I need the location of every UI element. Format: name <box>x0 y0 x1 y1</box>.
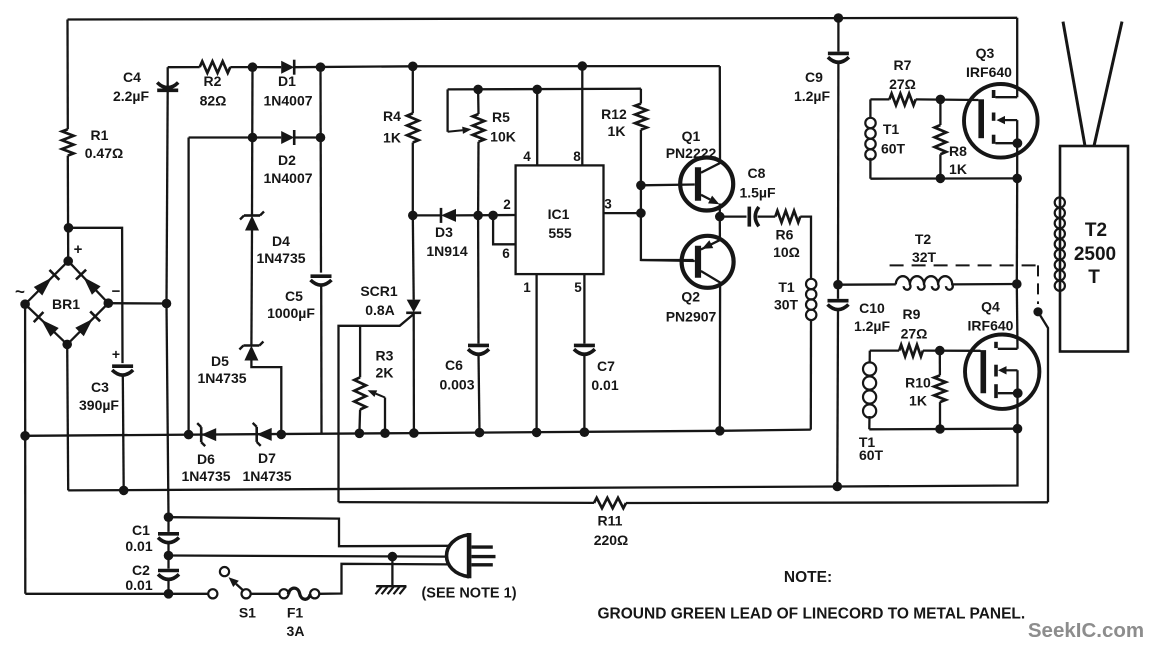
svg-text:1.5µF: 1.5µF <box>739 185 776 201</box>
wire C2 bottom lead <box>167 579 169 594</box>
wire dashed coupling vertical <box>1037 265 1039 304</box>
wire R10 bottom lead <box>939 402 941 429</box>
node R4/D3 junction <box>408 211 418 221</box>
node C1/C2 junction <box>164 551 174 561</box>
label F1 value <box>287 623 305 639</box>
wire D3 row left <box>413 214 441 216</box>
wire R4 to D3 junction <box>412 143 414 216</box>
resistor R3 <box>354 377 366 409</box>
svg-text:10K: 10K <box>490 129 516 145</box>
svg-text:+: + <box>112 346 120 362</box>
svg-text:Q2: Q2 <box>681 289 700 305</box>
label C2 <box>132 562 150 578</box>
node pin4 junction <box>532 85 542 95</box>
svg-text:PN2222: PN2222 <box>666 145 717 161</box>
label C8 <box>748 165 766 181</box>
wire F1 to plug bottom <box>319 564 448 594</box>
node dashed link junction <box>1033 307 1042 316</box>
node BR1 bottom vertex <box>62 340 72 350</box>
label R2 <box>204 73 222 89</box>
bridge diode upper-left (left to top vertex) <box>34 270 60 296</box>
node pin1 ground junction <box>532 428 542 438</box>
label 555 <box>548 225 572 241</box>
label Q3 <box>976 45 995 61</box>
wire BR1 bottom vertex down <box>67 344 68 490</box>
switch S1 terminal A <box>208 589 217 598</box>
label D3 value <box>426 243 467 259</box>
svg-text:3A: 3A <box>287 623 305 639</box>
label D5 <box>211 353 229 369</box>
wire R5 bottom lead <box>477 142 480 216</box>
label pin 3 <box>604 197 612 212</box>
svg-text:0.01: 0.01 <box>591 377 618 393</box>
wire Q2 base <box>641 260 695 261</box>
node pin3 junction <box>636 208 646 218</box>
svg-text:T1: T1 <box>883 121 900 137</box>
wire C1/C2 row to plug middle <box>169 556 447 557</box>
transistor Q4 channel segments <box>994 342 998 398</box>
label D7 value <box>242 468 291 484</box>
label C7 value <box>591 377 618 393</box>
svg-text:C3: C3 <box>91 379 109 395</box>
wire pin1 lead <box>535 274 537 432</box>
svg-text:C2: C2 <box>132 562 150 578</box>
wire pin3 row to Q2 base corner <box>641 213 694 260</box>
transistor Q3 substrate arrow <box>997 116 1018 124</box>
wire T1 30T to ground bus <box>810 319 813 430</box>
wire D5 to D7 junction <box>251 361 281 435</box>
wire R8 bottom lead <box>939 154 941 178</box>
node 32T row left junction <box>833 280 843 290</box>
transistor Q4 gate bar <box>980 350 986 393</box>
fuse F1 element <box>288 588 310 599</box>
wire top supply bus <box>68 18 1018 20</box>
potentiometer R5 <box>473 114 485 142</box>
svg-text:R1: R1 <box>91 127 109 143</box>
ac plug prong middle <box>472 555 496 558</box>
wire second bus C4 to R2 <box>168 66 200 68</box>
diode D2 <box>281 130 294 145</box>
svg-text:(SEE NOTE 1): (SEE NOTE 1) <box>421 586 516 602</box>
label D1 value <box>263 93 312 109</box>
wire junction to C3 branch <box>69 228 123 363</box>
svg-text:T2: T2 <box>1085 220 1107 241</box>
wiper arrow of R5 <box>448 127 472 134</box>
svg-text:D3: D3 <box>435 224 453 240</box>
capacitor C4 top lead <box>167 67 169 87</box>
label C1 value <box>125 538 152 554</box>
svg-text:D6: D6 <box>197 451 215 467</box>
wire R9 row <box>870 349 899 351</box>
node BR1 left vertex <box>20 299 30 309</box>
node D6 cathode junction <box>184 430 194 440</box>
label R7 value <box>889 76 916 92</box>
label ~ (AC input) <box>15 282 25 301</box>
label R1 <box>91 127 109 143</box>
transistor Q1 circle <box>680 158 733 211</box>
label D4 value <box>256 250 305 266</box>
transistor Q4 source lead <box>998 370 1018 393</box>
svg-text:C8: C8 <box>748 165 766 181</box>
wire link to R11 row <box>1038 312 1048 503</box>
label C7 <box>597 358 615 374</box>
wire R3 top lead <box>359 326 361 378</box>
svg-text:2K: 2K <box>376 365 394 381</box>
node ground bus left end <box>20 431 30 441</box>
label D2 value <box>263 170 312 186</box>
node Q4 source bottom junction <box>1013 424 1023 434</box>
wire D2 row <box>189 136 282 138</box>
wire 32T junction to C10 <box>837 285 839 299</box>
resistor R2 <box>200 61 231 73</box>
svg-text:IRF640: IRF640 <box>966 64 1012 80</box>
label D6 <box>197 451 215 467</box>
label Q2 type <box>666 309 717 325</box>
label (SEE NOTE 1) <box>421 586 516 602</box>
wire R2 to D1 <box>230 66 281 68</box>
transistor Q4 drain lead <box>998 348 1018 350</box>
label 60T (upper) <box>881 141 906 157</box>
resistor R7 <box>889 94 915 106</box>
node BR1 top vertex <box>63 256 73 266</box>
inductor T1 60T (upper) <box>865 118 875 160</box>
label 60T (lower) <box>859 447 884 463</box>
node C1 top junction <box>164 512 174 522</box>
label Q2 <box>681 289 700 305</box>
svg-text:1.2µF: 1.2µF <box>794 88 831 104</box>
label R12 <box>601 106 627 122</box>
wire pin4 lead <box>536 89 538 165</box>
wire emitter junction to C8 <box>720 215 747 217</box>
svg-text:3: 3 <box>604 197 612 212</box>
svg-text:D1: D1 <box>278 73 296 89</box>
svg-text:F1: F1 <box>287 605 304 621</box>
label BR1 <box>52 296 80 312</box>
transistor Q2 emitter with arrow <box>701 240 720 250</box>
label Q1 <box>682 128 701 144</box>
svg-text:SCR1: SCR1 <box>360 283 398 299</box>
label C4 <box>123 69 141 85</box>
ac plug face bar <box>467 533 472 578</box>
wire R11 row left <box>339 501 595 504</box>
resistor R6 <box>775 211 800 223</box>
label F1 <box>287 605 304 621</box>
wire ground stub <box>391 557 393 586</box>
zener diode D7 <box>253 423 272 446</box>
node C10 negative rail junction <box>833 482 843 492</box>
wire R7 row <box>870 98 889 100</box>
inductor T2 2500T winding <box>1055 197 1065 290</box>
label C3 value <box>79 397 119 413</box>
label SCR1 value <box>365 302 395 318</box>
wire R9 to Q4 gate <box>923 349 981 351</box>
wire R7 to Q3 gate <box>916 98 979 101</box>
transistor Q3 source lead <box>995 120 1017 143</box>
label pin 4 <box>523 149 531 164</box>
svg-text:1K: 1K <box>383 130 401 146</box>
wire D2 cathode to D1 line <box>294 136 320 138</box>
label D2 <box>278 152 296 168</box>
inductor T1 30T <box>806 279 816 320</box>
wire C1 column top <box>167 304 169 518</box>
svg-text:C4: C4 <box>123 69 141 85</box>
wire Q4 drain riser <box>1016 284 1019 349</box>
resistor R10 <box>934 375 946 402</box>
svg-text:T2: T2 <box>915 231 932 247</box>
wire R12 top corner <box>640 89 642 104</box>
wire R5 wiper bracket <box>446 89 448 131</box>
node ground stub junction <box>388 552 398 562</box>
svg-text:R6: R6 <box>776 227 794 243</box>
label 32T <box>912 249 937 265</box>
label T1 (30T) <box>778 279 795 295</box>
wire BR1 right vertex to C4 line <box>108 302 166 305</box>
svg-text:1.2µF: 1.2µF <box>854 318 891 334</box>
label pin 5 <box>574 280 582 295</box>
label R12 value <box>608 123 626 139</box>
node R4 top junction <box>408 62 418 72</box>
svg-text:C10: C10 <box>859 300 885 316</box>
node Q3 source junction <box>1013 138 1023 148</box>
watermark SeekIC.com <box>1028 619 1144 642</box>
label R2 value <box>200 93 227 109</box>
label R8 value <box>949 161 967 177</box>
transistor Q3 drain lead <box>995 96 1017 98</box>
label C5 <box>285 288 303 304</box>
wire second bus D1 to Q1 collector corner <box>294 66 720 67</box>
label pin 1 <box>523 280 531 295</box>
svg-text:R3: R3 <box>376 348 394 364</box>
node D2 cathode junction <box>316 133 326 143</box>
wire C5 to ground bus <box>320 285 323 434</box>
label pin 2 <box>503 197 511 212</box>
label R3 <box>376 348 394 364</box>
node R5 top junction <box>473 85 483 95</box>
node SCR1 ground junction <box>409 428 419 438</box>
svg-text:PN2907: PN2907 <box>666 309 717 325</box>
svg-text:Q1: Q1 <box>682 128 701 144</box>
wire bottom AC row <box>25 593 208 595</box>
wire C9 top lead <box>837 18 839 52</box>
svg-text:4: 4 <box>523 149 531 164</box>
label T2 (2500T) <box>1085 220 1107 241</box>
zener diode D4 <box>240 212 264 231</box>
thyristor SCR1 <box>406 300 421 313</box>
wire R11 row right <box>626 501 1048 504</box>
transistor Q4 substrate arrow <box>998 366 1018 374</box>
svg-text:60T: 60T <box>881 141 906 157</box>
wire T1 60T lower lead <box>869 158 871 179</box>
node Q2 collector ground junction <box>715 426 725 436</box>
svg-text:C1: C1 <box>132 522 150 538</box>
inductor T1 60T (lower) <box>863 362 876 417</box>
transistor Q3 gate bar <box>978 99 984 138</box>
wire Q4 bottom drop to negative rail <box>837 429 1017 487</box>
svg-text:0.01: 0.01 <box>125 538 152 554</box>
node pin8 top junction <box>578 61 588 71</box>
label C6 value <box>439 377 474 393</box>
inductor T2 32T <box>896 276 953 290</box>
label S1 <box>239 605 256 621</box>
label D1 <box>278 73 296 89</box>
wire left supply drop to R1 <box>66 20 69 130</box>
fuse F1 left terminal <box>279 589 288 598</box>
switch S1 open contact <box>220 567 229 576</box>
svg-text:IC1: IC1 <box>548 206 570 222</box>
svg-text:Q4: Q4 <box>981 299 1000 315</box>
wire pin5 lead to C7 <box>583 274 585 343</box>
svg-text:T1: T1 <box>778 279 795 295</box>
svg-text:−: − <box>112 283 121 300</box>
label R4 <box>383 108 401 124</box>
label 30T <box>774 297 799 313</box>
label NOTE: <box>784 569 832 586</box>
wiper arrow of R3 <box>368 390 386 397</box>
switch S1 terminal B <box>242 589 251 598</box>
svg-text:C7: C7 <box>597 358 615 374</box>
svg-text:0.8A: 0.8A <box>365 302 395 318</box>
inductor T1 60T lower lead <box>869 351 871 363</box>
svg-text:R8: R8 <box>949 143 967 159</box>
node R1/C3 junction <box>64 223 74 233</box>
svg-text:1N4735: 1N4735 <box>242 468 291 484</box>
label D3 <box>435 224 453 240</box>
label T2 (32T) <box>915 231 932 247</box>
label ground note <box>598 606 1026 623</box>
label Q1 type <box>666 145 717 161</box>
wire Q3 bottom to 32T row <box>1016 178 1019 284</box>
label D4 <box>272 233 290 249</box>
svg-text:390µF: 390µF <box>79 397 119 413</box>
chassis ground symbol <box>376 586 407 594</box>
svg-text:D7: D7 <box>258 450 276 466</box>
label pin 6 <box>502 246 510 261</box>
wire Q1 emitter lead <box>719 204 721 217</box>
wire Q1 base <box>641 183 695 186</box>
label - (BR1 negative) <box>112 283 121 300</box>
label T1 (60T upper) <box>883 121 900 137</box>
wire dashed coupling horizontal <box>890 264 1038 266</box>
svg-text:220Ω: 220Ω <box>594 532 629 548</box>
svg-text:Q3: Q3 <box>976 45 995 61</box>
wire Q3 bottom row <box>870 177 1017 180</box>
wire Q2 emitter lead <box>719 217 721 241</box>
node C4-line junction <box>162 299 172 309</box>
capacitor C8 <box>749 207 759 227</box>
svg-text:60T: 60T <box>859 447 884 463</box>
fuse F1 right terminal <box>310 589 319 598</box>
node R3 wiper ground junction <box>380 428 390 438</box>
node R8 top junction <box>936 95 946 105</box>
transistor Q2 collector <box>701 271 720 431</box>
label + (BR1 positive) <box>74 241 83 258</box>
transistor Q4 circle <box>965 335 1039 409</box>
label 2500 <box>1074 244 1116 265</box>
wire D4 top lead <box>251 67 254 215</box>
svg-text:D5: D5 <box>211 353 229 369</box>
node R10 bottom junction <box>935 424 945 434</box>
node BR1 right vertex <box>104 298 114 308</box>
label R6 value <box>773 244 800 260</box>
wire 32T row right <box>952 283 1017 286</box>
wire R3 to ground bus <box>358 410 361 434</box>
label R11 <box>598 513 623 529</box>
node D2/D4 junction <box>248 133 258 143</box>
capacitor C3 <box>112 366 133 375</box>
label R1 value <box>85 145 123 161</box>
node Q1 base junction <box>636 181 646 191</box>
wire base column to pin3 row <box>640 185 642 213</box>
ac plug body <box>447 535 470 577</box>
wire C9 to 32T row <box>837 62 840 285</box>
label Q4 type <box>968 318 1014 334</box>
label C1 <box>132 522 150 538</box>
capacitor C6 <box>468 345 489 354</box>
svg-text:SeekIC.com: SeekIC.com <box>1028 619 1144 642</box>
svg-text:1N4007: 1N4007 <box>263 170 312 186</box>
node C6 ground junction <box>475 428 485 438</box>
transistor Q2 base bar <box>695 246 701 278</box>
wire R1 to BR1 + vertex <box>67 156 70 262</box>
wire R12 to Q1 base row <box>640 130 642 186</box>
svg-text:1K: 1K <box>608 123 626 139</box>
svg-text:1K: 1K <box>949 161 967 177</box>
wire D3 to pin2 <box>456 214 516 217</box>
svg-text:1000µF: 1000µF <box>267 305 315 321</box>
label SCR1 <box>360 283 398 299</box>
wire T1 lower to bottom row <box>868 416 871 429</box>
zener diode D6 <box>197 423 216 446</box>
op-amp IC1 555 box <box>516 165 604 274</box>
capacitor C7 <box>574 345 595 354</box>
svg-text:NOTE:: NOTE: <box>784 569 832 586</box>
svg-text:1N4735: 1N4735 <box>181 468 230 484</box>
bridge diode lower-left (bottom to left vertex) <box>34 312 59 337</box>
capacitor C6 top lead <box>477 215 480 343</box>
node D1 cathode junction <box>316 62 326 72</box>
label D6 value <box>181 468 230 484</box>
label C3 <box>91 379 109 395</box>
label R5 <box>492 109 510 125</box>
wire Q3 drain riser <box>1016 18 1018 97</box>
capacitor C3 plus sign <box>112 346 120 362</box>
bridge BR1 diamond outline <box>25 261 108 344</box>
svg-text:2500: 2500 <box>1074 244 1116 265</box>
label C5 value <box>267 305 315 321</box>
svg-text:6: 6 <box>502 246 510 261</box>
wire C4 to BR1 junction <box>167 90 168 303</box>
wire main ground bus <box>25 430 811 436</box>
wire Q4 bottom row <box>869 428 1017 431</box>
svg-text:C9: C9 <box>805 69 823 85</box>
node C9 top junction <box>834 13 844 23</box>
node R8 bottom junction <box>936 174 946 184</box>
node Q4 source junction <box>1013 388 1023 398</box>
node emitter/C8 junction <box>715 212 725 222</box>
label R5 value <box>490 129 516 145</box>
svg-text:555: 555 <box>548 225 572 241</box>
label R10 value <box>909 393 927 409</box>
wire D2 row riser <box>187 138 189 435</box>
wire C1 to C2 <box>167 542 169 569</box>
label C2 value <box>125 577 152 593</box>
svg-text:D4: D4 <box>272 233 290 249</box>
wire R4 top lead <box>412 66 414 113</box>
resistor R9 <box>899 345 923 357</box>
bridge diode upper-right (right to top vertex) <box>76 270 101 295</box>
resistor R8 <box>935 125 947 154</box>
antenna right element <box>1094 22 1122 146</box>
